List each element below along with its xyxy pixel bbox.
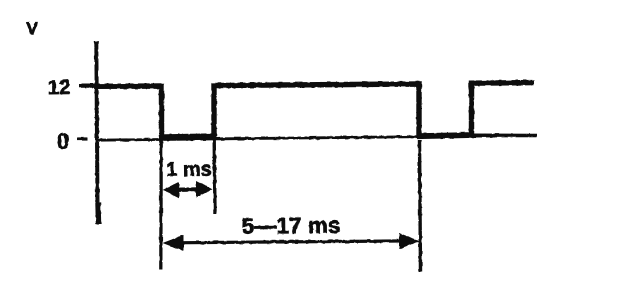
waveform rising edge 1, high segment 2, falling edge 2 bbox=[214, 84, 419, 137]
dimension arrow 1 ms : right head bbox=[196, 181, 213, 198]
extension line at first falling edge bbox=[159, 95, 163, 270]
dimension arrow 5-17 ms : left head bbox=[163, 235, 184, 251]
0 V baseline wire bbox=[96, 135, 537, 140]
waveform high segment 1 with falling edge 1 bbox=[94, 86, 162, 136]
svg-text:V: V bbox=[26, 19, 38, 38]
voltage axis lower tail bbox=[95, 203, 101, 224]
voltage axis (vertical) bbox=[96, 41, 97, 205]
svg-text:12: 12 bbox=[48, 76, 71, 99]
svg-text:0: 0 bbox=[57, 128, 69, 153]
baseline right thicker segment bbox=[471, 134, 537, 138]
waveform low segment 1 bbox=[159, 136, 216, 137]
svg-text:1 ms: 1 ms bbox=[166, 159, 212, 181]
waveform rising edge 2 and high segment 3 bbox=[472, 83, 535, 135]
tick 12 V bbox=[79, 83, 98, 87]
extension line at second falling edge bbox=[420, 140, 421, 272]
dimension arrow 5-17 ms : right head bbox=[399, 233, 420, 249]
dimension arrow 1 ms : left head bbox=[163, 182, 180, 199]
tick 0 V bbox=[77, 137, 88, 140]
svg-text:5—17 ms: 5—17 ms bbox=[241, 213, 340, 239]
dimension arrow 5-17 ms : shaft bbox=[170, 241, 412, 243]
extension line at 1 ms rising edge bbox=[212, 140, 216, 214]
waveform low segment 2 bbox=[417, 135, 473, 136]
dimension arrow 1 ms : shaft bbox=[166, 187, 209, 192]
